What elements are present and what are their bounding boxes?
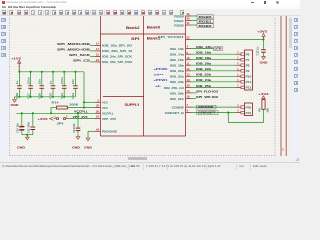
svg-text:IOB_16a: IOB_16a bbox=[196, 51, 211, 55]
svg-text:2: 2 bbox=[66, 116, 68, 119]
svg-text:18: 18 bbox=[187, 56, 190, 60]
svg-text:GND: GND bbox=[260, 60, 268, 64]
net label IOB_20a bbox=[196, 62, 211, 66]
left toolbar bbox=[0, 16, 8, 156]
svg-text:IOB_15b: IOB_15b bbox=[170, 58, 184, 62]
connector J1 pin P6 bbox=[237, 51, 250, 56]
connector J1 pin P9 bbox=[237, 68, 250, 73]
svg-text:IOB_22a: IOB_22a bbox=[196, 67, 211, 71]
svg-text:1: 1 bbox=[237, 73, 239, 76]
net label VCCPLL bbox=[74, 109, 88, 113]
svg-text:CDONE: CDONE bbox=[172, 106, 184, 110]
svg-text:IOB_31b: IOB_31b bbox=[170, 97, 184, 101]
svg-text:1: 1 bbox=[237, 79, 239, 82]
U1 pin 39 RGB0 bbox=[174, 12, 191, 18]
svg-text:1: 1 bbox=[237, 51, 239, 54]
svg-text:39: 39 bbox=[187, 12, 190, 16]
svg-text:«PFW1: «PFW1 bbox=[154, 78, 169, 82]
connector J2 pin P31 bbox=[237, 110, 252, 115]
svg-text:P7: P7 bbox=[246, 58, 250, 62]
note PWM text 2 bbox=[154, 73, 164, 77]
svg-text:1u: 1u bbox=[49, 81, 53, 85]
connector J1 body bbox=[245, 50, 253, 90]
U1 pin 18 IOB_15b bbox=[170, 56, 191, 62]
wire + net label SPI_SCK bbox=[69, 53, 95, 57]
svg-text:SPI: SPI bbox=[131, 37, 140, 41]
svg-text:7: 7 bbox=[187, 103, 189, 107]
svg-text:DTR: DTR bbox=[215, 47, 222, 51]
svg-text:10n: 10n bbox=[38, 79, 42, 84]
svg-text:IOB_29b: IOB_29b bbox=[170, 91, 184, 95]
svg-text:1: 1 bbox=[54, 116, 56, 119]
wire GND rail bbox=[15, 96, 76, 98]
wire R14 right to VCC pin36 bbox=[68, 107, 96, 109]
wire VPP_2V5 bbox=[66, 118, 95, 120]
wire VCCPLL rail bbox=[16, 112, 95, 114]
wire +1V2 rail drop bbox=[83, 72, 85, 108]
svg-text:RGB2: RGB2 bbox=[199, 24, 213, 28]
U1 pin 40 RGB1 bbox=[174, 17, 191, 23]
window title bar bbox=[0, 0, 300, 5]
canvas bbox=[8, 16, 288, 156]
svg-text:28: 28 bbox=[187, 84, 190, 88]
sheet page-limit dashed border bbox=[10, 18, 275, 156]
svg-text:IOB_35b_SPI_CSN: IOB_35b_SPI_CSN bbox=[102, 60, 132, 64]
note PWM text 3 bbox=[154, 78, 169, 82]
U1 pin 7 CDONE bbox=[172, 103, 191, 109]
svg-text:GND: GND bbox=[11, 103, 19, 107]
svg-text:P30: P30 bbox=[246, 105, 252, 109]
svg-text:RGB1: RGB1 bbox=[174, 19, 184, 23]
svg-text:36: 36 bbox=[96, 104, 99, 108]
svg-text:1: 1 bbox=[237, 104, 239, 107]
svg-text:C17: C17 bbox=[26, 93, 30, 99]
junction cap bottom bbox=[18, 96, 20, 98]
svg-text:RGB0: RGB0 bbox=[199, 15, 213, 19]
junction CRESET pullup bbox=[227, 112, 229, 114]
wire CRESET to pullup bbox=[228, 109, 263, 122]
FPGA U1 body outline bbox=[101, 16, 186, 136]
svg-text:22: 22 bbox=[187, 36, 190, 40]
U1 pin 8 CRESET_B bbox=[165, 109, 191, 115]
svg-text:14: 14 bbox=[96, 42, 99, 46]
svg-text:13: 13 bbox=[187, 72, 190, 76]
svg-text:+3V3: +3V3 bbox=[257, 30, 267, 34]
U1 pin 5 VCC bbox=[95, 98, 108, 104]
wire to global label RGB2 bbox=[191, 24, 197, 26]
capacitor C7 100n bbox=[256, 40, 266, 57]
capacitor C17 100n bbox=[26, 72, 33, 99]
svg-text:C14: C14 bbox=[60, 93, 64, 99]
global label CDONE bbox=[197, 105, 217, 109]
power +3V3 pullup bbox=[259, 92, 269, 99]
wire + net label SPI_MISO-IOB bbox=[57, 47, 95, 51]
wire CDONE bbox=[191, 106, 237, 108]
wire IOB_18a to connector bbox=[191, 59, 237, 61]
status bar bbox=[0, 162, 300, 169]
svg-text:44: 44 bbox=[96, 127, 99, 131]
junction cap top C18 bbox=[18, 71, 20, 73]
junction cap top C13 bbox=[74, 71, 76, 73]
wire IOB_25b to connector bbox=[191, 86, 237, 88]
connector J2 body bbox=[245, 103, 253, 116]
svg-text:IOB_18a: IOB_18a bbox=[196, 56, 211, 60]
capacitor C11 100n bbox=[27, 113, 35, 134]
svg-text:IOB_13b: IOB_13b bbox=[170, 47, 184, 51]
svg-text:IOB_20a: IOB_20a bbox=[170, 69, 185, 73]
svg-text:100n: 100n bbox=[26, 77, 30, 84]
capacitor C14 100n bbox=[60, 72, 67, 99]
U1 pin 24 VPP_2V5 bbox=[95, 115, 116, 121]
svg-text:IOB_32a_SPI_SO: IOB_32a_SPI_SO bbox=[102, 44, 133, 48]
svg-text:IOB_22a: IOB_22a bbox=[170, 75, 185, 79]
U1 section header Bank1 bbox=[147, 37, 161, 41]
svg-text:8: 8 bbox=[187, 109, 189, 113]
U1 pin 22 SPI_VCCIO1 bbox=[158, 35, 191, 39]
svg-text:SPI_WP-IO2: SPI_WP-IO2 bbox=[196, 95, 218, 99]
junction rail VCC bbox=[83, 101, 85, 103]
top toolbar bbox=[0, 9, 300, 16]
ground GND left cluster bbox=[11, 97, 19, 107]
junction cap bottom bbox=[63, 96, 65, 98]
svg-text:C11 100n: C11 100n bbox=[27, 121, 31, 133]
wire IOB_24a to connector bbox=[191, 81, 237, 83]
U1 section header SPI bbox=[131, 37, 140, 41]
net label SPI_FLD-IO3 bbox=[196, 89, 218, 93]
power +3V3 top bbox=[257, 30, 267, 40]
global label RGB1 bbox=[197, 19, 214, 23]
svg-text:P11: P11 bbox=[246, 80, 252, 84]
svg-text:VPP_2V5: VPP_2V5 bbox=[102, 117, 116, 121]
svg-text:IOB_20a: IOB_20a bbox=[196, 62, 211, 66]
svg-text:5: 5 bbox=[98, 98, 100, 102]
capacitor C10 10u bbox=[15, 113, 24, 134]
power label +3V3 at JP4 bbox=[38, 117, 54, 121]
U1 pin 11 IOB_18a bbox=[170, 61, 191, 67]
svg-text:C12 1u: C12 1u bbox=[256, 46, 260, 55]
svg-text:P12: P12 bbox=[246, 86, 252, 90]
svg-text:11: 11 bbox=[187, 61, 190, 65]
svg-text:IOB_25b_G3: IOB_25b_G3 bbox=[164, 86, 185, 90]
svg-text:IOB_23b: IOB_23b bbox=[170, 80, 184, 84]
svg-text:IOB_18a: IOB_18a bbox=[170, 64, 185, 68]
junction +3V3 rail bbox=[262, 38, 264, 40]
svg-text:100n: 100n bbox=[60, 77, 64, 84]
global label RGB2 bbox=[197, 24, 214, 28]
svg-text:IOB_33b_SPI_SI: IOB_33b_SPI_SI bbox=[102, 49, 132, 53]
svg-text:VCC: VCC bbox=[102, 101, 108, 105]
svg-text:R14: R14 bbox=[52, 100, 60, 104]
svg-text:SPI_CS: SPI_CS bbox=[73, 58, 90, 62]
wire + net label SPI_CS bbox=[73, 58, 95, 62]
connector J2 pin P30 bbox=[237, 104, 252, 109]
svg-text:VCCPLL: VCCPLL bbox=[74, 109, 88, 113]
svg-text:SUPPLY: SUPPLY bbox=[125, 103, 141, 107]
svg-text:P31: P31 bbox=[246, 111, 252, 115]
U1 pin 12 IOB_20a bbox=[170, 67, 191, 73]
capacitor C15 1u bbox=[49, 72, 56, 99]
U1 pin 28 IOB_25b_G3 bbox=[164, 84, 191, 90]
svg-text:C18: C18 bbox=[15, 93, 19, 99]
svg-text:SPI_FLD-IO3: SPI_FLD-IO3 bbox=[196, 89, 218, 93]
junction cap bottom bbox=[52, 96, 54, 98]
svg-text:IOB_34a_SPI_SCK: IOB_34a_SPI_SCK bbox=[102, 55, 132, 59]
net label IOB_22a bbox=[196, 67, 211, 71]
wire C10 C11 bottom bbox=[22, 134, 33, 136]
jumper JP4 bbox=[54, 116, 68, 126]
svg-text:12: 12 bbox=[187, 67, 190, 71]
wire +1V2 rail bbox=[19, 71, 84, 73]
U1 pin 29 VCCPLL bbox=[95, 109, 114, 115]
resistor R6 10K bbox=[257, 100, 269, 113]
svg-text:18: 18 bbox=[187, 95, 190, 99]
ground GND C10 cluster bbox=[17, 134, 29, 150]
note PWM text 4 bbox=[155, 84, 162, 88]
resistor R14 bbox=[52, 100, 79, 109]
wire SPI_FLD-IO3 bbox=[191, 92, 196, 94]
svg-text:«PFW0: «PFW0 bbox=[154, 67, 169, 71]
svg-text:40: 40 bbox=[187, 17, 190, 21]
net label IOB_25b bbox=[196, 84, 211, 88]
svg-text:4: 4 bbox=[187, 45, 189, 49]
net label IOB_23b bbox=[196, 73, 211, 77]
svg-text:10: 10 bbox=[187, 89, 190, 93]
svg-text:1: 1 bbox=[237, 84, 239, 87]
U1 pin 41 RGB2 bbox=[174, 21, 191, 27]
svg-text:P10: P10 bbox=[246, 75, 252, 79]
U1 pin 44 PAD/GND bbox=[95, 127, 117, 133]
capacitor C9 100n bbox=[72, 113, 81, 136]
svg-text:C13: C13 bbox=[71, 93, 75, 99]
note PWM text 1 bbox=[154, 67, 169, 71]
net label SPI_WP-IO2 bbox=[196, 95, 218, 99]
svg-text:SPI_SCK: SPI_SCK bbox=[69, 53, 91, 57]
svg-text:+1V2: +1V2 bbox=[11, 57, 21, 61]
svg-text:VPP_2V5: VPP_2V5 bbox=[73, 115, 88, 119]
wire JP4 to label bbox=[54, 118, 57, 120]
svg-text:100K: 100K bbox=[69, 102, 79, 106]
svg-text:GND: GND bbox=[84, 145, 92, 149]
U1 pin 10 IOB_29b bbox=[170, 89, 191, 95]
U1 pin 18 IOB_31b bbox=[170, 95, 191, 101]
junction cap bottom bbox=[30, 96, 32, 98]
svg-text:10n: 10n bbox=[71, 79, 75, 84]
svg-text:29: 29 bbox=[96, 109, 99, 113]
U1 pin 36 VCC bbox=[95, 104, 108, 110]
wire IOB_22a to connector bbox=[191, 70, 237, 72]
svg-text:41: 41 bbox=[187, 21, 190, 25]
wire CRESET bbox=[191, 112, 237, 114]
connector J1 pin P8 bbox=[237, 62, 250, 67]
svg-text:9: 9 bbox=[187, 50, 189, 54]
net label IOB_24a bbox=[196, 78, 211, 82]
U1 pin 4 IOB_13b bbox=[170, 45, 191, 51]
wire R14 left bbox=[51, 108, 57, 114]
svg-text:VCC: VCC bbox=[102, 106, 108, 110]
svg-text:VCCPLL: VCCPLL bbox=[102, 112, 114, 116]
svg-text:«t••: «t•• bbox=[154, 73, 164, 77]
svg-text:P8: P8 bbox=[246, 64, 250, 68]
U1 pin 15 IOB_34a_SPI_SCK bbox=[95, 53, 132, 59]
U1 pin 13 IOB_22a bbox=[170, 72, 191, 78]
wire IOB_13b bbox=[191, 48, 214, 50]
wire + net label SPI_MOSI-IOB bbox=[57, 42, 95, 46]
net label IOB_16a bbox=[196, 51, 211, 55]
wire to global label RGB0 bbox=[191, 15, 197, 17]
U1 pin 17 IOB_33b_SPI_SI bbox=[95, 47, 132, 53]
capacitor C18 1u bbox=[15, 72, 22, 99]
U1 pin 9 IOB_14a bbox=[170, 50, 191, 56]
net label VPP_2V5 bbox=[73, 115, 88, 119]
svg-text:1: 1 bbox=[237, 62, 239, 65]
svg-text:19: 19 bbox=[187, 78, 190, 82]
horizontal scrollbar bbox=[0, 156, 300, 162]
svg-text:C10 10u: C10 10u bbox=[15, 123, 19, 133]
svg-text:PAD/GND: PAD/GND bbox=[102, 130, 117, 134]
net label IOB_18a bbox=[196, 56, 211, 60]
wire IOB_23b to connector bbox=[191, 75, 237, 77]
U1 section header Bank2 bbox=[126, 26, 140, 30]
svg-text:IOB_24a: IOB_24a bbox=[196, 78, 211, 82]
svg-text:SPI_MISO-IOB: SPI_MISO-IOB bbox=[57, 47, 91, 51]
svg-text:CDONE: CDONE bbox=[198, 105, 214, 109]
U1 pin 16 IOB_35b_SPI_CSN bbox=[95, 58, 132, 64]
svg-text:RGB1: RGB1 bbox=[199, 19, 213, 23]
menu bar bbox=[0, 5, 300, 9]
vertical scrollbar bbox=[288, 16, 292, 156]
capacitor C16 10n bbox=[38, 72, 45, 99]
svg-text:Bank2: Bank2 bbox=[126, 26, 140, 30]
U1 section header SUPPLY bbox=[125, 103, 141, 107]
junction cap bottom bbox=[41, 96, 43, 98]
svg-text:SPI_MOSI-IOB: SPI_MOSI-IOB bbox=[57, 42, 91, 46]
wire to global label RGB1 bbox=[191, 20, 197, 22]
svg-text:IOB_13b-: IOB_13b- bbox=[196, 45, 213, 49]
svg-text:IOB_14a: IOB_14a bbox=[170, 53, 185, 57]
svg-text:R6: R6 bbox=[257, 108, 261, 112]
svg-text:10K: 10K bbox=[265, 108, 269, 113]
svg-text:JP4: JP4 bbox=[57, 122, 65, 126]
svg-text:IOB_23b: IOB_23b bbox=[196, 73, 211, 77]
svg-text:IOB_25b: IOB_25b bbox=[196, 84, 211, 88]
svg-text:C15: C15 bbox=[49, 93, 53, 99]
junction cap top C17 bbox=[30, 71, 32, 73]
svg-text:CRESET: CRESET bbox=[198, 111, 216, 115]
junction R14 rail bbox=[83, 106, 85, 108]
svg-text:P9: P9 bbox=[246, 69, 250, 73]
ground GND C9 bbox=[72, 137, 80, 150]
svg-text:P6: P6 bbox=[246, 53, 250, 57]
svg-text:CRESET_B: CRESET_B bbox=[165, 111, 184, 115]
svg-text:C16: C16 bbox=[38, 93, 42, 99]
svg-text:SPI_VCCIO1: SPI_VCCIO1 bbox=[158, 35, 185, 39]
connector J1 pin P7 bbox=[237, 57, 250, 62]
global label CRESET bbox=[197, 111, 219, 115]
svg-text:Bank0: Bank0 bbox=[147, 26, 161, 30]
U1 section header Bank0 bbox=[147, 26, 161, 30]
capacitor C13 10n bbox=[71, 72, 78, 99]
connector J1 pin P10 bbox=[237, 73, 252, 78]
ground GND PAD bbox=[84, 138, 92, 149]
svg-text:GND: GND bbox=[72, 145, 80, 149]
connector J1 pin P11 bbox=[237, 79, 252, 84]
svg-text:RGB0: RGB0 bbox=[174, 14, 184, 18]
junction cap top C15 bbox=[52, 71, 54, 73]
svg-text:«L: «L bbox=[155, 84, 162, 88]
svg-text:RGB2: RGB2 bbox=[174, 23, 184, 27]
junction VCCPLL junctions bbox=[21, 112, 79, 114]
svg-text:16: 16 bbox=[96, 58, 99, 62]
svg-text:1u: 1u bbox=[15, 81, 19, 85]
wire pin22 to +3V3 rail bbox=[191, 39, 264, 41]
svg-text:15: 15 bbox=[96, 53, 99, 57]
svg-text:2: 2 bbox=[237, 110, 239, 113]
svg-text:1: 1 bbox=[237, 57, 239, 60]
wire IOB_16a to connector bbox=[191, 53, 237, 55]
svg-text:GND: GND bbox=[17, 146, 25, 150]
junction cap top C16 bbox=[41, 71, 43, 73]
svg-text:+3V3: +3V3 bbox=[38, 117, 48, 121]
junction cap top C14 bbox=[63, 71, 65, 73]
wire IOB_20a to connector bbox=[191, 64, 237, 66]
svg-text:24: 24 bbox=[96, 115, 99, 119]
worksheet frame lines bbox=[281, 16, 286, 156]
global label DTR bbox=[214, 47, 223, 51]
U1 pin 19 IOB_23b bbox=[170, 78, 191, 84]
power +1V2 bbox=[11, 57, 21, 72]
wire SPI_WP-IO2 bbox=[191, 98, 196, 100]
connector J1 pin P12 bbox=[237, 84, 252, 89]
U1 pin 14 IOB_32a_SPI_SO bbox=[95, 42, 133, 48]
wire PAD GND bbox=[88, 131, 95, 138]
wire VCC pin5 bbox=[84, 101, 95, 103]
svg-text:17: 17 bbox=[96, 47, 99, 51]
svg-text:1: 1 bbox=[237, 68, 239, 71]
svg-text:C9 100n: C9 100n bbox=[72, 123, 76, 133]
svg-text:C: C bbox=[282, 149, 284, 152]
ground GND C7 bbox=[260, 57, 268, 65]
right toolbar bbox=[292, 16, 300, 156]
global label RGB0 bbox=[197, 15, 214, 19]
net label IOB_13b- bbox=[196, 45, 213, 49]
